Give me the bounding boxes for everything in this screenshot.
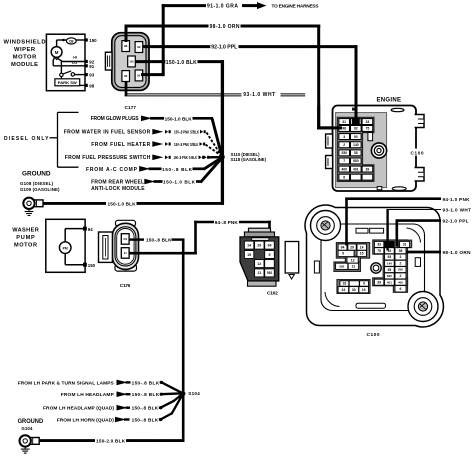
C177 pin 93 bottom-left bbox=[122, 71, 130, 82]
C102 pins row 15 9 bbox=[244, 251, 253, 259]
wire ground to label bbox=[44, 202, 107, 205]
diesel only bracket bbox=[57, 112, 59, 167]
ip pins row5 35 250 bbox=[385, 267, 395, 273]
wire 91-1.0 GRA horizontal bbox=[162, 4, 206, 7]
wire 150-.8 BLK from C176 bbox=[129, 238, 144, 240]
C177 pin 98 top-left bbox=[122, 41, 130, 52]
wire lh headlamp quad diagonal to splice S104 bbox=[161, 401, 175, 408]
wire 91 from C177 pin to corner bbox=[141, 73, 163, 76]
wire PM to pin 94 bbox=[64, 229, 66, 242]
splice S110/S118 bbox=[219, 154, 225, 160]
wire 94 from C176 bbox=[129, 252, 197, 255]
junction dots at bottom row wire ends bbox=[160, 381, 163, 384]
module pin 150 bbox=[85, 38, 88, 41]
splice S104 bbox=[180, 391, 185, 396]
C102 top slot bbox=[252, 238, 270, 240]
engine pins row3 3 93 + slot bbox=[339, 134, 350, 140]
wire 150 ground vertical left bbox=[182, 240, 185, 442]
ip pins row 18 9 bbox=[340, 281, 349, 286]
engine connector C100 body bbox=[333, 106, 417, 192]
wire PM to pin 150 bbox=[64, 253, 66, 264]
connector C176 top bump bbox=[116, 220, 136, 226]
wire water sensor diagonal to splice bbox=[207, 133, 222, 156]
wire CB to pin 150 bbox=[76, 39, 84, 41]
wire 93-1.0 WHT double line right bbox=[281, 93, 306, 95]
wire lh park diagonal to splice S104 bbox=[162, 382, 183, 393]
engine pins row7 400 401 39 bbox=[339, 166, 350, 172]
ip C100 top slots bbox=[356, 228, 368, 233]
C102 pins row 11 592 bbox=[255, 269, 264, 277]
ip pins row 12 bbox=[347, 257, 358, 263]
wire label to S104 vertical bbox=[126, 439, 185, 442]
circuit breaker CB bbox=[66, 38, 76, 44]
wire 94 vertical up bbox=[194, 221, 197, 255]
engine C100 top slot bbox=[391, 108, 404, 111]
ip connector C100 outer body bbox=[305, 205, 443, 327]
C176 left tab bbox=[99, 232, 113, 262]
wire 92 overlay into engine pin 92 bbox=[355, 105, 358, 125]
wire 91 vertical bbox=[162, 4, 165, 76]
ip pins row4 140 2 bbox=[385, 260, 395, 266]
wire lh horn diagonal to splice S104 bbox=[161, 413, 173, 419]
engine C100 label bbox=[409, 149, 426, 156]
engine C100 left tab upper bbox=[326, 134, 333, 148]
connector C177 body bbox=[112, 33, 149, 91]
engine C100 bottom small slot bbox=[377, 187, 382, 190]
engine C100 bottom slot bbox=[392, 187, 406, 191]
engine pins row8 6 bbox=[339, 174, 350, 180]
C102 bottom cap bbox=[248, 281, 277, 286]
wire glow plugs diagonal to splice bbox=[212, 118, 222, 156]
wire 94-.8 PNK horizontal bbox=[194, 221, 214, 224]
ip pins row3 93 3 bbox=[385, 254, 395, 260]
wire fuel pressure to splice bbox=[209, 156, 220, 159]
wire 92-1.0 PPL horizontal bbox=[239, 45, 358, 48]
wire park sw box to pin 98 bbox=[80, 84, 85, 86]
ip C100 bottom-left inner arc bbox=[325, 292, 340, 307]
wire 98-1.0 ORN horizontal right bbox=[241, 25, 321, 28]
module pin 98 bbox=[85, 84, 88, 87]
wire fuel heater diagonal to splice bbox=[206, 145, 221, 156]
connector C176 body bbox=[112, 223, 138, 269]
engine C100 bolt bbox=[371, 143, 386, 158]
wire 92/93 covered pin bbox=[384, 241, 394, 248]
module pin 91 bbox=[85, 64, 88, 67]
engine C100 right tab lower bbox=[415, 168, 425, 182]
park switch contacts bbox=[60, 73, 63, 76]
wire 98 from C177 pin up bbox=[125, 25, 128, 43]
ip C100 right slot bbox=[415, 258, 420, 267]
ip left pin grid backing bbox=[336, 243, 369, 259]
ip pins row 592 11 bbox=[336, 263, 348, 269]
washer pin 94 bbox=[83, 227, 87, 231]
wire 94-1.0 PNK bbox=[345, 197, 441, 200]
wire 94 down into C102 bbox=[268, 221, 271, 244]
C102 side lock bbox=[285, 242, 299, 274]
ip pins row1 33 _ 31 bbox=[374, 241, 383, 247]
wire label to main vertical bbox=[137, 202, 224, 205]
ip C100 left slot bbox=[314, 261, 319, 273]
engine pins row2 98 92 75 bbox=[339, 126, 350, 132]
ip C100 bottom slot bbox=[356, 303, 386, 308]
ip C100 inner border bbox=[321, 224, 425, 311]
ip pins row 24 30 19 bbox=[338, 287, 349, 293]
connector C102 body bbox=[240, 237, 279, 281]
ip C100 top-right inner arc bbox=[407, 228, 421, 243]
ip pins row7 39 401 400 bbox=[374, 279, 383, 285]
ip C100 bolt bbox=[371, 263, 381, 273]
pump motor PM bbox=[59, 242, 71, 254]
ground lug G104 bbox=[29, 438, 40, 445]
wire lh headlamp to splice S104 bbox=[162, 392, 183, 395]
engine C100 right tab upper bbox=[415, 115, 425, 128]
wire 92-1.0 PPL bbox=[396, 219, 442, 222]
arrow to engine harness bbox=[242, 4, 258, 7]
wire rear wheel diagonal to splice bbox=[201, 158, 223, 183]
wire 93 from C177 pin down bbox=[125, 81, 128, 96]
engine C100 top-left mark bbox=[352, 108, 356, 111]
engine C100 left tab lower bbox=[326, 156, 333, 169]
C177 pin 150 center bbox=[128, 56, 136, 67]
wire 98-1.0 ORN bbox=[406, 251, 441, 254]
wire 93-1.0 WHT bbox=[387, 209, 442, 211]
module pin 92 bbox=[85, 60, 88, 63]
wire park switch to HI wire bbox=[60, 62, 62, 74]
ip pins row 9 15 bbox=[338, 250, 354, 256]
motor M bbox=[51, 47, 62, 58]
engine pins row4 2 140 bbox=[339, 142, 350, 148]
engine C100 grid panel bbox=[336, 113, 387, 188]
module pin 93 bbox=[85, 73, 88, 76]
ip small grid backing bbox=[337, 280, 370, 294]
ip pins row6 695 2 bbox=[385, 273, 395, 279]
park switch box PARK SW bbox=[55, 79, 80, 86]
ip C100 bottom-right boss bbox=[408, 292, 438, 322]
wire 150 main vertical bbox=[221, 60, 224, 205]
wire ground G104 to label bbox=[40, 439, 95, 442]
connector C176 bottom bump bbox=[115, 264, 137, 271]
engine pins row5 250 35 bbox=[339, 150, 350, 156]
wire 94 to C102 bbox=[239, 221, 271, 224]
wire M to LO pin 91 bbox=[53, 57, 55, 60]
wire 98 overlay into engine pin 98 bbox=[317, 105, 320, 129]
ip C100 top-left boss bbox=[311, 211, 341, 241]
C177 left tab bbox=[105, 52, 112, 70]
connector C102 top cap bbox=[249, 228, 271, 232]
ground lug G108/G109 bbox=[33, 200, 44, 207]
wire M to CB bbox=[56, 40, 58, 47]
junction dot bbox=[62, 39, 65, 42]
engine pin grid backing bbox=[337, 117, 374, 181]
wire 98 into pin 98 bbox=[317, 126, 342, 129]
washer pin 150 bbox=[83, 263, 87, 267]
C176 pin 94 bbox=[121, 248, 129, 259]
ip right pin grid backing bbox=[373, 240, 408, 292]
C176 pin 150 bbox=[121, 234, 129, 245]
C177 pin 92 top-right bbox=[135, 42, 143, 53]
wire 92 from C177 pin bbox=[143, 45, 211, 48]
wire 92 vertical to engine connector bbox=[355, 45, 358, 125]
wire M to HI pin 92 bbox=[58, 59, 63, 62]
wire 98 vertical to engine connector bbox=[317, 25, 320, 130]
wire park switch to pin 93 bbox=[75, 74, 85, 76]
C177 pin 91 bottom-right bbox=[135, 70, 143, 81]
label 150-1.0 BLK bbox=[161, 60, 165, 64]
engine pins row1 31 _ 33 bbox=[339, 119, 350, 125]
C102 pins row 14 29 94 bbox=[244, 241, 253, 249]
wire a/c comp diagonal to splice bbox=[204, 158, 223, 170]
wiper motor module U1 box bbox=[46, 34, 85, 90]
wire 93-1.0 WHT double line left bbox=[126, 93, 242, 95]
wire 98-1.0 ORN horizontal left bbox=[125, 25, 209, 28]
washer pump motor box bbox=[46, 219, 85, 272]
ip pins row8 6 bbox=[395, 286, 406, 293]
engine pins row6 7 850 bbox=[339, 158, 350, 164]
wire to ground vertical bbox=[172, 238, 185, 240]
wire 150-1.0 BLK horizontal bbox=[198, 60, 225, 63]
C102 pins row 12 bbox=[255, 260, 264, 268]
ip pins row 94 29 14 bbox=[338, 244, 347, 250]
wire 150 from C177 center pin bbox=[135, 60, 164, 63]
ip pins row2 75 92 98 bbox=[374, 248, 383, 254]
